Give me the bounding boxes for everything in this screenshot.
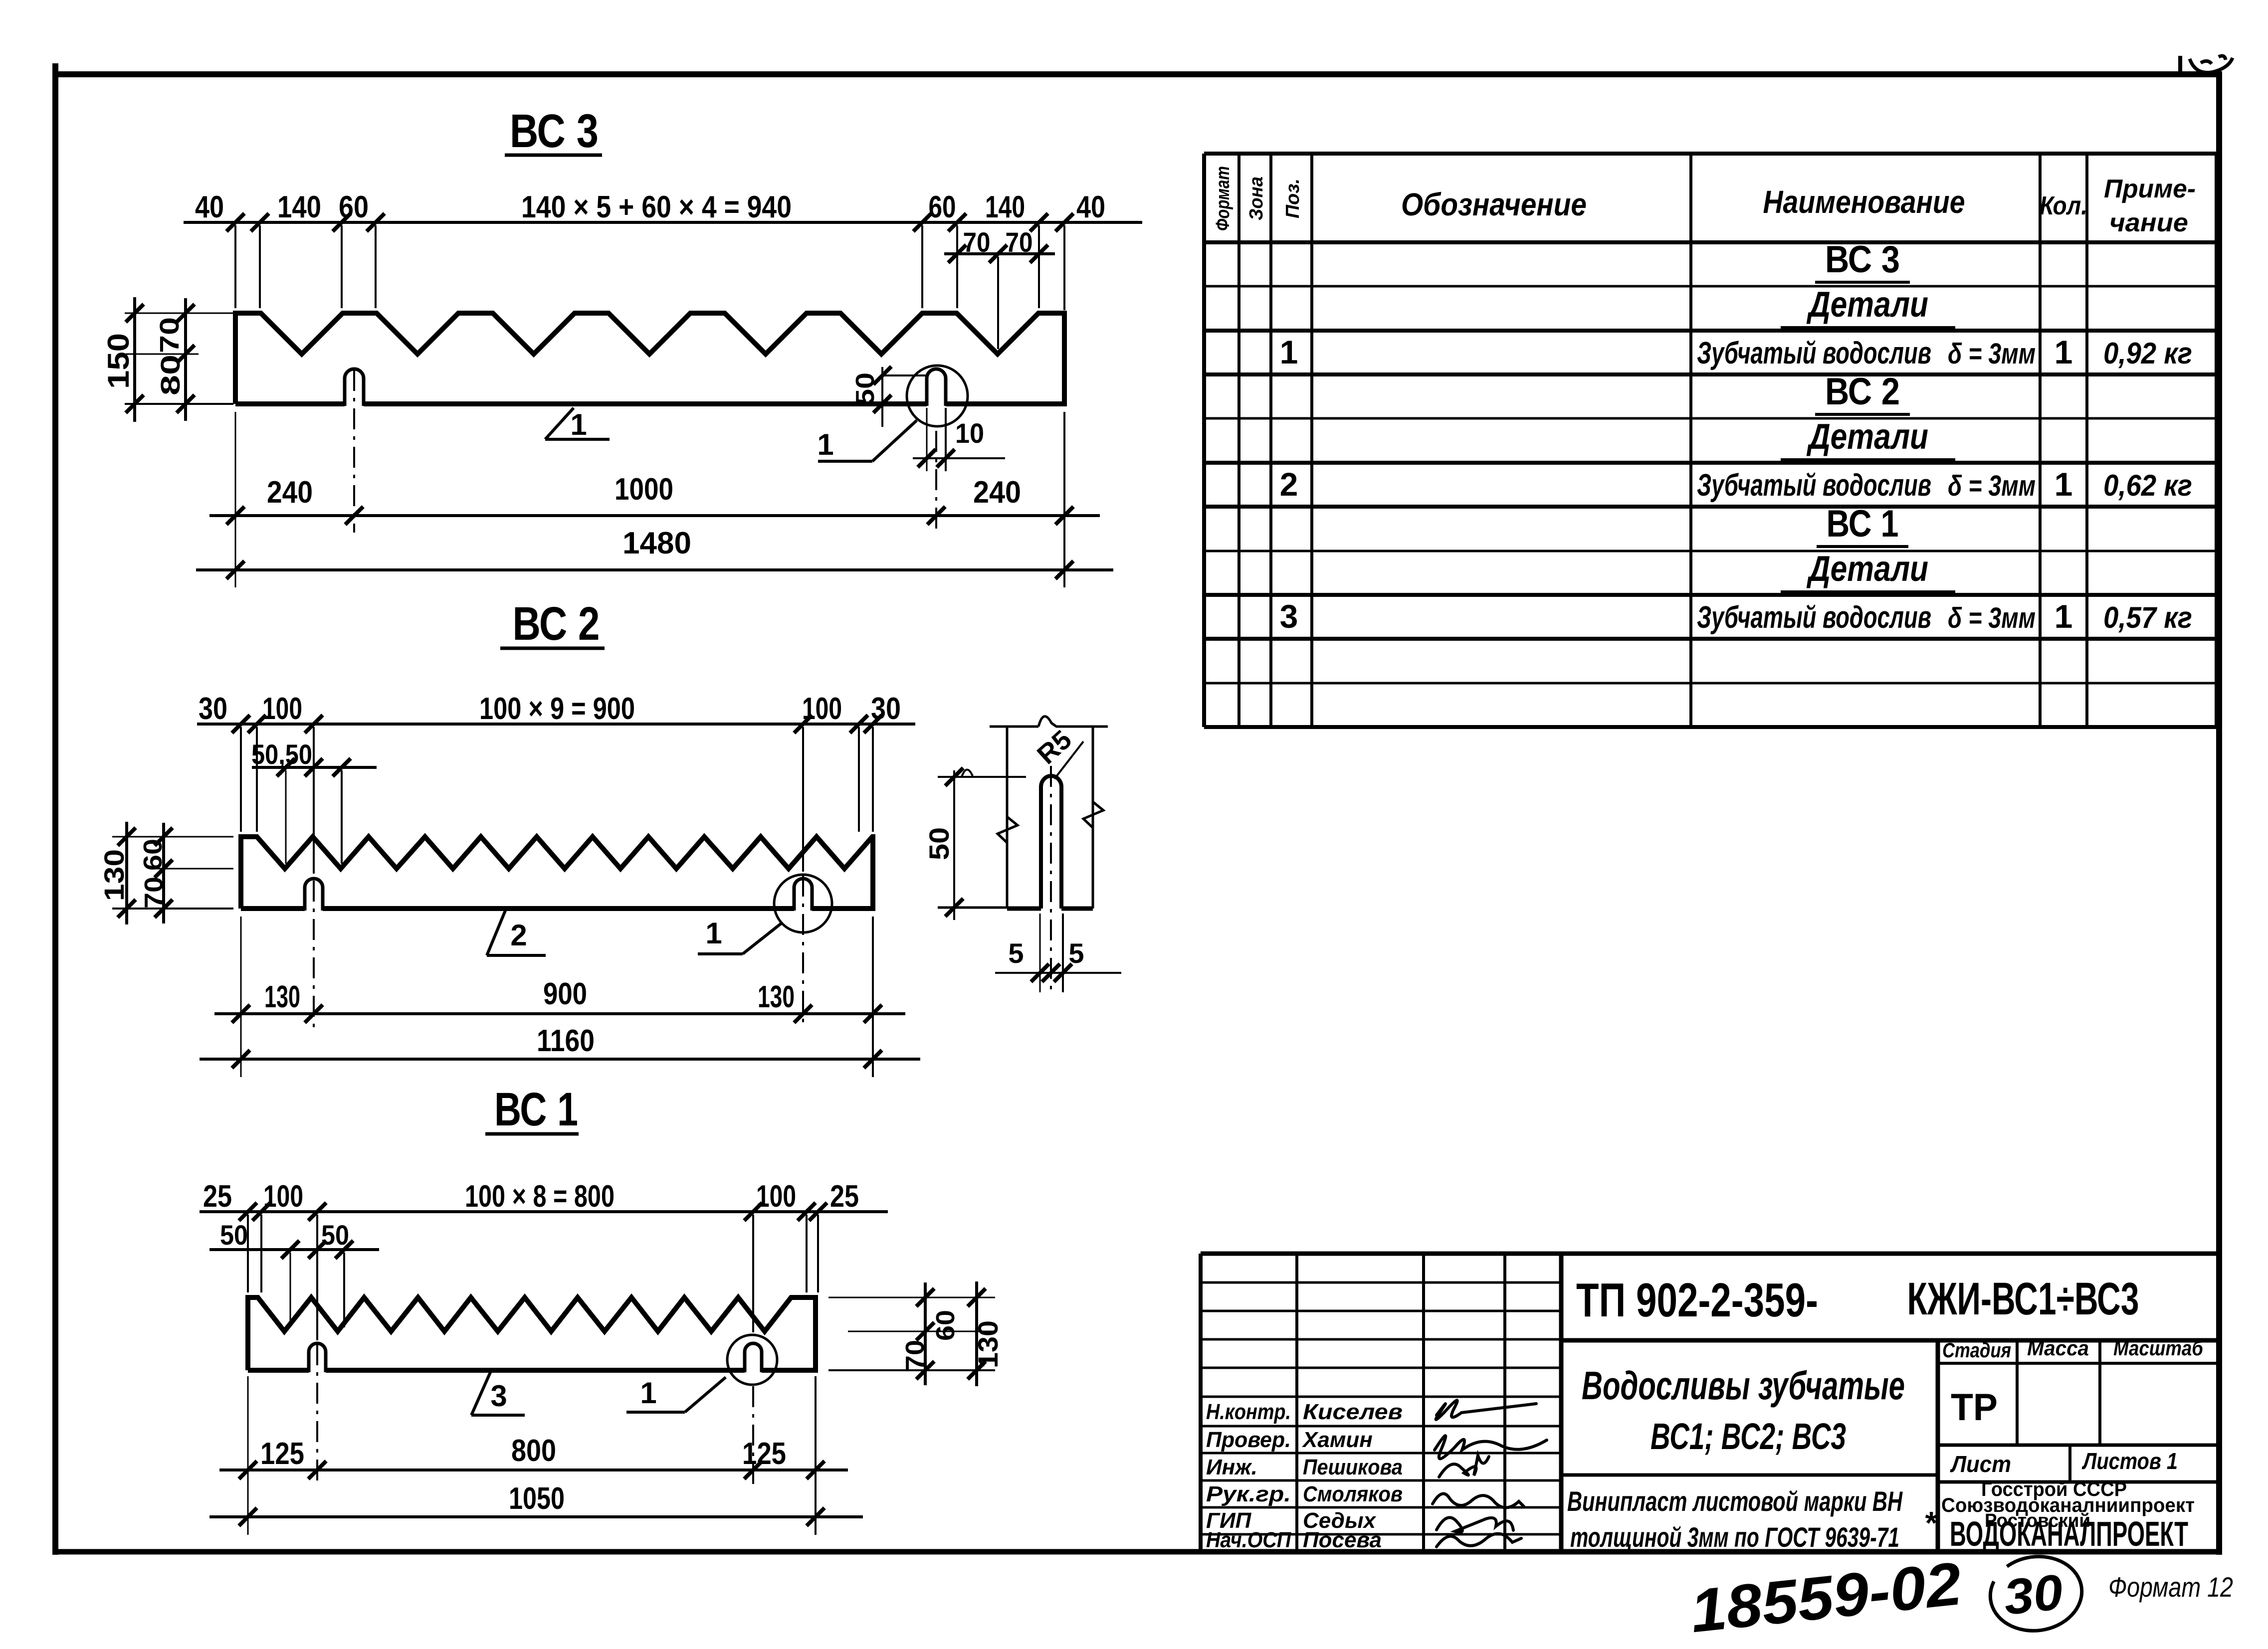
svg-text:3: 3 bbox=[1280, 598, 1298, 635]
svg-text:130: 130 bbox=[264, 980, 300, 1014]
svg-text:δ = 3мм: δ = 3мм bbox=[1948, 338, 2036, 370]
svg-text:70: 70 bbox=[963, 226, 991, 258]
svg-text:240: 240 bbox=[267, 475, 313, 510]
svg-text:100 × 8 = 800: 100 × 8 = 800 bbox=[465, 1179, 615, 1214]
svg-text:КЖИ-ВС1÷ВС3: КЖИ-ВС1÷ВС3 bbox=[1907, 1274, 2139, 1324]
svg-text:130: 130 bbox=[758, 980, 795, 1014]
svg-text:Нач.ОСП: Нач.ОСП bbox=[1206, 1528, 1291, 1552]
svg-text:0,62 кг: 0,62 кг bbox=[2103, 469, 2192, 502]
svg-text:130: 130 bbox=[972, 1320, 1004, 1368]
svg-text:100 × 9 = 900: 100 × 9 = 900 bbox=[479, 692, 635, 726]
svg-text:ВС 2: ВС 2 bbox=[513, 597, 600, 650]
svg-text:1: 1 bbox=[2055, 466, 2073, 503]
svg-text:18559-02: 18559-02 bbox=[1687, 1549, 1964, 1645]
svg-text:Приме-: Приме- bbox=[2104, 175, 2196, 203]
svg-text:Стадия: Стадия bbox=[1942, 1338, 2011, 1362]
svg-text:1000: 1000 bbox=[615, 472, 673, 507]
svg-text:Формат 12: Формат 12 bbox=[2108, 1571, 2233, 1603]
svg-text:0,92 кг: 0,92 кг bbox=[2103, 337, 2192, 370]
svg-text:Зубчатый водослив: Зубчатый водослив bbox=[1697, 468, 1931, 503]
svg-text:1: 1 bbox=[817, 428, 833, 461]
svg-text:50: 50 bbox=[851, 372, 880, 405]
svg-text:30: 30 bbox=[2001, 1564, 2065, 1626]
svg-text:Наименование: Наименование bbox=[1763, 184, 1965, 220]
svg-text:R5: R5 bbox=[1031, 725, 1077, 770]
svg-text:ВОДОКАНАЛПРОЕКТ: ВОДОКАНАЛПРОЕКТ bbox=[1950, 1514, 2188, 1553]
svg-text:2: 2 bbox=[510, 918, 527, 952]
svg-text:30: 30 bbox=[871, 692, 901, 726]
svg-text:Масштаб: Масштаб bbox=[2113, 1336, 2204, 1360]
svg-text:1: 1 bbox=[2055, 334, 2073, 370]
svg-text:ТП 902-2-359-: ТП 902-2-359- bbox=[1576, 1274, 1818, 1327]
svg-text:60: 60 bbox=[931, 1310, 960, 1341]
svg-text:30: 30 bbox=[199, 692, 227, 726]
svg-text:150: 150 bbox=[102, 333, 135, 389]
svg-text:10: 10 bbox=[955, 417, 984, 449]
svg-text:Обозначение: Обозначение bbox=[1401, 186, 1587, 222]
svg-text:70: 70 bbox=[1006, 226, 1033, 258]
svg-text:25: 25 bbox=[203, 1179, 232, 1214]
svg-text:Детали: Детали bbox=[1806, 285, 1928, 325]
svg-text:Зубчатый водослив: Зубчатый водослив bbox=[1697, 600, 1931, 635]
svg-text:800: 800 bbox=[511, 1434, 556, 1468]
svg-text:80: 80 bbox=[156, 355, 186, 395]
svg-text:125: 125 bbox=[742, 1437, 786, 1471]
svg-text:ТР: ТР bbox=[1951, 1386, 1998, 1429]
svg-text:δ = 3мм: δ = 3мм bbox=[1948, 602, 2036, 634]
svg-text:толщиной 3мм по ГОСТ 9639-71: толщиной 3мм по ГОСТ 9639-71 bbox=[1570, 1521, 1899, 1553]
svg-text:Формат: Формат bbox=[1213, 166, 1234, 231]
svg-text:Провер.: Провер. bbox=[1206, 1428, 1291, 1452]
svg-text:Рук.гр.: Рук.гр. bbox=[1206, 1482, 1291, 1506]
svg-text:60: 60 bbox=[339, 190, 369, 224]
svg-text:1: 1 bbox=[570, 408, 587, 441]
svg-text:40: 40 bbox=[1076, 190, 1105, 224]
svg-text:900: 900 bbox=[543, 977, 587, 1011]
svg-text:1050: 1050 bbox=[509, 1481, 565, 1516]
svg-text:240: 240 bbox=[973, 475, 1021, 510]
svg-text:Детали: Детали bbox=[1806, 417, 1928, 457]
svg-text:1: 1 bbox=[1280, 334, 1298, 370]
svg-text:1160: 1160 bbox=[537, 1024, 595, 1058]
svg-text:50: 50 bbox=[220, 1219, 248, 1251]
svg-text:δ = 3мм: δ = 3мм bbox=[1948, 470, 2036, 502]
svg-text:Киселев: Киселев bbox=[1303, 1400, 1403, 1424]
svg-text:100: 100 bbox=[802, 692, 842, 726]
svg-text:25: 25 bbox=[830, 1179, 859, 1214]
svg-text:ВС 3: ВС 3 bbox=[510, 105, 599, 158]
svg-text:40: 40 bbox=[195, 190, 224, 224]
svg-text:50: 50 bbox=[321, 1219, 349, 1251]
svg-text:Зона: Зона bbox=[1246, 177, 1267, 220]
svg-text:50,50: 50,50 bbox=[251, 738, 312, 770]
svg-text:2: 2 bbox=[1280, 466, 1298, 503]
svg-text:ВС1; ВС2; ВС3: ВС1; ВС2; ВС3 bbox=[1650, 1416, 1846, 1457]
svg-text:Кол.: Кол. bbox=[2040, 191, 2087, 220]
svg-text:140 × 5 + 60 × 4 = 940: 140 × 5 + 60 × 4 = 940 bbox=[521, 190, 792, 224]
svg-text:3: 3 bbox=[490, 1379, 507, 1413]
svg-text:ВС 2: ВС 2 bbox=[1825, 370, 1900, 413]
svg-text:1: 1 bbox=[705, 916, 722, 950]
svg-text:1480: 1480 bbox=[622, 526, 691, 560]
svg-text:Поз.: Поз. bbox=[1282, 179, 1303, 218]
svg-text:5: 5 bbox=[1068, 937, 1084, 969]
svg-text:Хамин: Хамин bbox=[1301, 1428, 1373, 1452]
svg-text:60: 60 bbox=[139, 839, 168, 871]
svg-text:100: 100 bbox=[756, 1179, 796, 1214]
svg-text:140: 140 bbox=[985, 190, 1025, 224]
svg-text:130: 130 bbox=[98, 849, 130, 901]
svg-text:100: 100 bbox=[262, 692, 302, 726]
svg-text:70: 70 bbox=[901, 1340, 930, 1371]
svg-text:70: 70 bbox=[140, 877, 169, 909]
svg-text:Листов 1: Листов 1 bbox=[2081, 1448, 2178, 1474]
svg-text:Масса: Масса bbox=[2027, 1336, 2089, 1360]
svg-text:Пешикова: Пешикова bbox=[1303, 1455, 1403, 1479]
svg-text:Водосливы зубчатые: Водосливы зубчатые bbox=[1582, 1363, 1905, 1408]
svg-text:125: 125 bbox=[260, 1437, 304, 1471]
svg-text:ВС 3: ВС 3 bbox=[1825, 238, 1900, 281]
svg-text:ВС 1: ВС 1 bbox=[494, 1083, 578, 1136]
svg-text:50: 50 bbox=[923, 827, 955, 860]
svg-text:5: 5 bbox=[1008, 937, 1024, 969]
svg-text:Посева: Посева bbox=[1303, 1528, 1382, 1552]
svg-text:Инж.: Инж. bbox=[1206, 1455, 1257, 1479]
svg-text:Детали: Детали bbox=[1806, 549, 1928, 589]
svg-text:0,57 кг: 0,57 кг bbox=[2103, 601, 2192, 634]
svg-text:ВС 1: ВС 1 bbox=[1827, 503, 1899, 545]
svg-text:1: 1 bbox=[640, 1376, 656, 1410]
svg-text:100: 100 bbox=[263, 1179, 303, 1214]
svg-text:Винипласт листовой марки ВН: Винипласт листовой марки ВН bbox=[1567, 1485, 1903, 1517]
svg-text:60: 60 bbox=[929, 190, 956, 224]
svg-text:140: 140 bbox=[277, 190, 321, 224]
svg-text:Лист: Лист bbox=[1950, 1451, 2011, 1477]
svg-text:70: 70 bbox=[155, 317, 185, 353]
svg-text:чание: чание bbox=[2109, 208, 2188, 237]
svg-text:Н.контр.: Н.контр. bbox=[1206, 1400, 1291, 1424]
svg-text:*: * bbox=[1925, 1505, 1938, 1541]
svg-text:Зубчатый водослив: Зубчатый водослив bbox=[1697, 336, 1931, 370]
svg-text:Смоляков: Смоляков bbox=[1303, 1482, 1403, 1506]
svg-text:1: 1 bbox=[2055, 598, 2073, 635]
